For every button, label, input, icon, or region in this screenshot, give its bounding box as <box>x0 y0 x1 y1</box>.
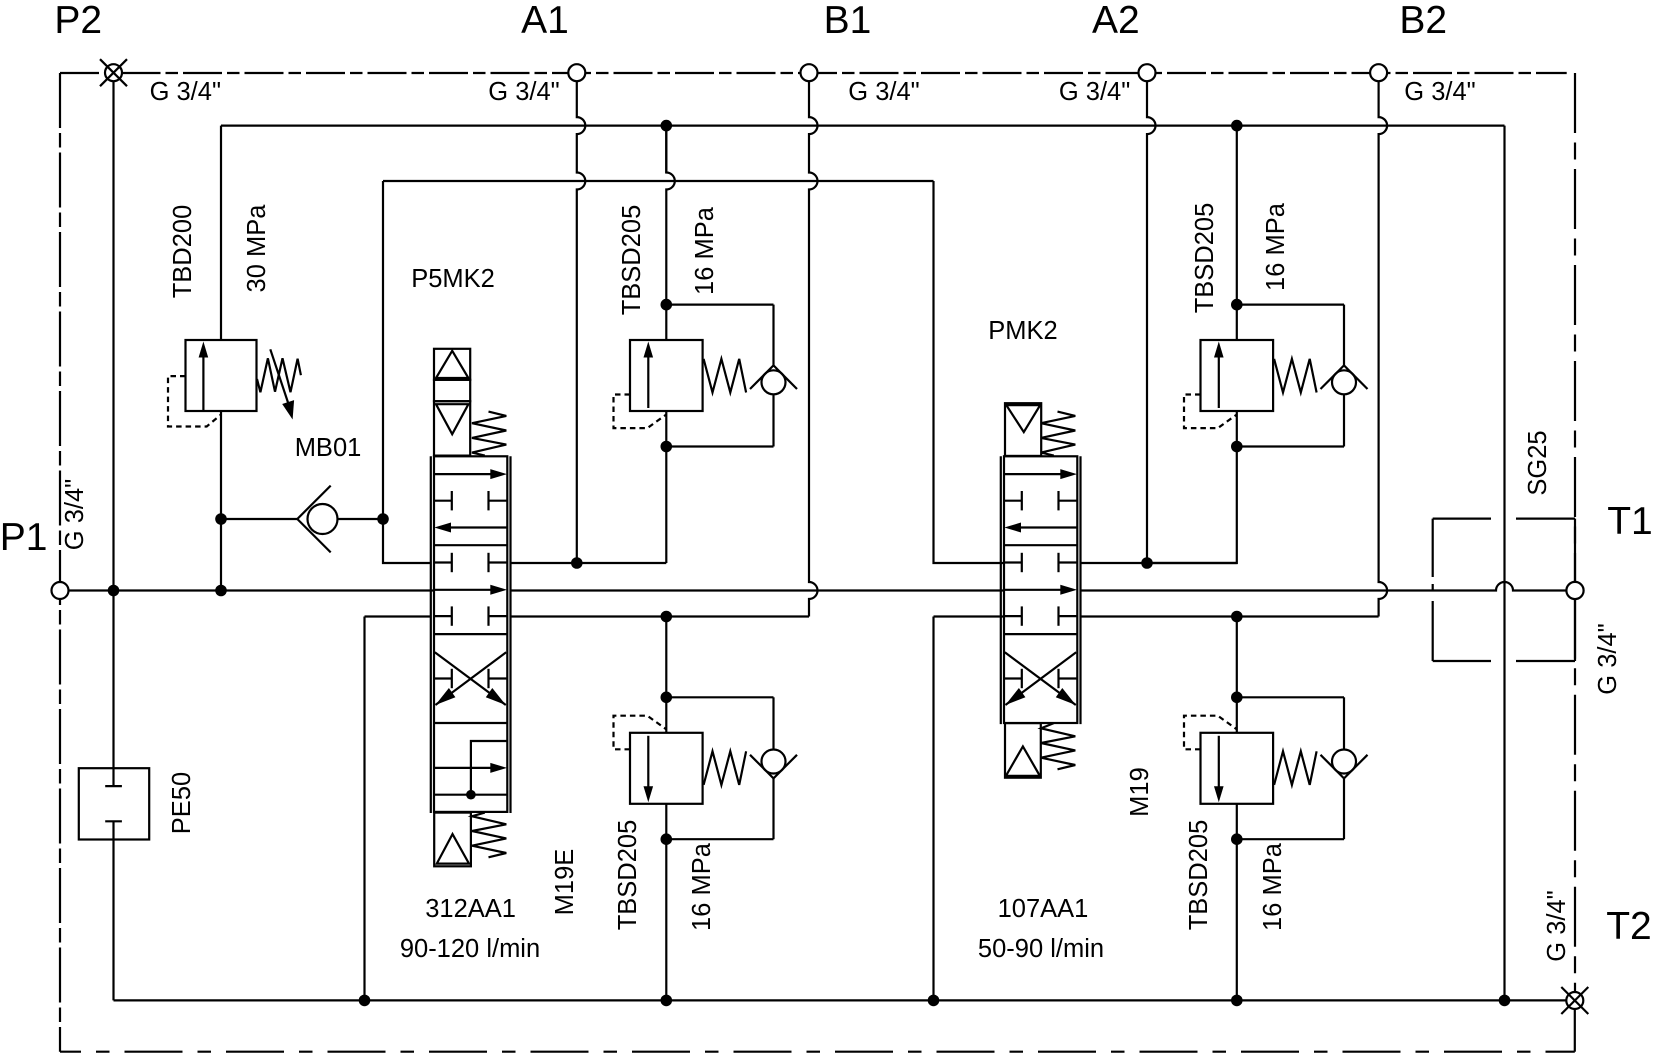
relief valve TBSD205 (lower, x=666.3) <box>661 833 673 845</box>
TBSD205 bypass check valve <box>666 304 773 306</box>
P5MK2 position 3 (cross) <box>435 652 506 705</box>
PMK2 pilot box (top) <box>1005 403 1041 456</box>
PMK2 spring (bottom) <box>1041 723 1075 769</box>
svg-text:M19: M19 <box>1126 767 1154 817</box>
wire: P bridge bracket y=181 <box>383 180 934 182</box>
P5MK2 position 1 <box>434 473 493 475</box>
port T2 (test point) <box>1566 992 1583 1009</box>
svg-text:50-90 l/min: 50-90 l/min <box>978 935 1104 963</box>
wire: PMK2 B port to B2 <box>1080 615 1379 617</box>
junction A1 / valve A port <box>571 557 583 569</box>
svg-text:SG25: SG25 <box>1524 430 1552 495</box>
svg-text:TBSD205: TBSD205 <box>1191 203 1219 314</box>
P5MK2 position 4 (regeneration) <box>434 767 493 769</box>
svg-text:G 3/4": G 3/4" <box>150 78 221 106</box>
wire: top gallery from TBD200 to right drop <box>221 124 1505 126</box>
svg-text:G 3/4": G 3/4" <box>488 78 559 106</box>
P5MK2 spring (bottom) <box>472 813 506 858</box>
TBSD205 pilot line <box>614 716 667 750</box>
svg-text:90-120 l/min: 90-120 l/min <box>400 935 540 963</box>
svg-text:A1: A1 <box>521 0 569 42</box>
TBD200 pilot line <box>168 376 221 426</box>
junction top gallery / TBSD205 upper-right <box>1231 120 1243 132</box>
junction A2 / valve A port <box>1141 557 1153 569</box>
wire: P5MK2 B port to B1 <box>365 615 431 617</box>
relief valve TBSD205 (upper, x=666.3) <box>661 299 673 311</box>
svg-text:G 3/4": G 3/4" <box>1404 78 1475 106</box>
junction top gallery / TBSD205 upper-left <box>661 120 673 132</box>
svg-text:P1: P1 <box>0 516 47 559</box>
svg-text:107AA1: 107AA1 <box>998 895 1089 923</box>
PMK2 spring (top) <box>1041 412 1075 456</box>
svg-text:P5MK2: P5MK2 <box>411 265 495 293</box>
wire: right drop to tank line <box>1503 126 1505 1001</box>
P5MK2 pilot box (bottom) <box>434 813 471 867</box>
junction TBD200 outlet / MB01 <box>215 513 227 525</box>
port A2 <box>1139 64 1156 81</box>
port B2 <box>1370 64 1387 81</box>
wire: B2 drop <box>1379 81 1388 617</box>
PMK2 position 1 <box>1004 473 1063 475</box>
svg-text:G 3/4": G 3/4" <box>1059 78 1130 106</box>
accessory SG25 outline <box>1433 517 1575 519</box>
wire: PMK2 A port to A2/TBSD <box>1080 562 1147 564</box>
svg-text:30 MPa: 30 MPa <box>243 204 271 293</box>
junction on main line at P2 branch <box>108 585 120 597</box>
wire: P5MK2 B side drop to tank <box>363 617 365 1001</box>
svg-text:TBSD205: TBSD205 <box>1185 820 1213 931</box>
svg-text:TBSD205: TBSD205 <box>614 820 642 931</box>
svg-text:16 MPa: 16 MPa <box>691 206 719 295</box>
TBSD205 bypass check valve <box>1237 838 1344 840</box>
TBSD205 bypass check valve <box>1237 304 1344 306</box>
svg-text:T2: T2 <box>1606 905 1652 948</box>
wire: PMK2 lower-left drop to tank <box>934 615 1005 617</box>
junction B2 line / TBSD205 lower-right <box>1231 611 1243 623</box>
check valve MB01 <box>221 518 297 520</box>
P5MK2 position 2 (centre) <box>434 561 452 563</box>
relief valve TBD200 <box>220 126 222 340</box>
svg-text:T1: T1 <box>1607 500 1653 543</box>
directional valve P5MK2 body <box>434 456 507 812</box>
wire: tank gallery to T2 <box>114 999 1567 1001</box>
junction on main line at TBD200 branch <box>215 585 227 597</box>
relief valve TBSD205 (upper, x=1236.8) <box>1231 299 1243 311</box>
wire: B1 drop <box>809 81 818 617</box>
TBSD205 pilot line <box>1184 716 1237 750</box>
P5MK2 pilot boxes (top) <box>434 349 470 380</box>
junction tank/P5MK2 B drop <box>359 995 371 1007</box>
port A1 <box>568 64 585 81</box>
junction tank/TBSD205 lower-left <box>661 995 673 1007</box>
port P2 (test point) <box>105 64 122 81</box>
svg-text:PE50: PE50 <box>168 772 196 834</box>
TBSD205 bypass check valve <box>666 838 773 840</box>
TBSD205 pilot line <box>614 395 667 429</box>
junction tank/PMK2 drop <box>928 995 940 1007</box>
wire: P5MK2 A port to A1/TBSD <box>510 562 667 564</box>
junction tank/right drop <box>1499 995 1511 1007</box>
junction MB01 outlet node <box>377 513 389 525</box>
manifold enclosure border <box>60 72 1567 74</box>
P5MK2 spring (top) <box>472 412 506 456</box>
svg-text:16 MPa: 16 MPa <box>1262 202 1290 291</box>
svg-text:16 MPa: 16 MPa <box>1259 842 1287 931</box>
svg-text:TBSD205: TBSD205 <box>618 205 646 316</box>
port B1 <box>801 64 818 81</box>
PMK2 position 3 (cross) <box>1005 652 1076 705</box>
svg-text:B1: B1 <box>824 0 872 42</box>
svg-text:G 3/4": G 3/4" <box>61 479 89 550</box>
svg-text:P2: P2 <box>54 0 102 42</box>
wire: main P gallery P1 to T1 <box>68 589 434 591</box>
port T1 <box>1566 582 1583 599</box>
svg-text:B2: B2 <box>1399 0 1447 42</box>
wire: A2 drop <box>1147 81 1156 563</box>
svg-text:G 3/4": G 3/4" <box>848 78 919 106</box>
svg-text:A2: A2 <box>1092 0 1140 42</box>
wire: A1 drop <box>577 81 586 563</box>
svg-text:TBD200: TBD200 <box>169 205 197 299</box>
port P1 <box>52 582 69 599</box>
TBSD205 pilot line <box>1184 395 1237 429</box>
svg-text:PMK2: PMK2 <box>988 317 1057 345</box>
svg-text:G 3/4": G 3/4" <box>1594 623 1622 694</box>
TBD200 adjustment arrow <box>270 349 288 404</box>
PMK2 position 2 (centre) <box>1004 561 1022 563</box>
junction tank/TBSD205 lower-right <box>1231 995 1243 1007</box>
relief valve TBSD205 (lower, x=1236.8) <box>1231 833 1243 845</box>
svg-text:312AA1: 312AA1 <box>425 895 516 923</box>
svg-text:M19E: M19E <box>551 849 579 916</box>
junction B line / TBSD205 lower-left <box>661 611 673 623</box>
wire: P2 drop <box>112 81 114 591</box>
svg-text:G 3/4": G 3/4" <box>1543 890 1571 961</box>
directional valve PMK2 body <box>1004 456 1077 723</box>
svg-text:MB01: MB01 <box>295 434 362 462</box>
PMK2 pilot box (bottom) <box>1005 723 1041 778</box>
plug PE50 <box>79 768 149 839</box>
svg-text:16 MPa: 16 MPa <box>688 842 716 931</box>
